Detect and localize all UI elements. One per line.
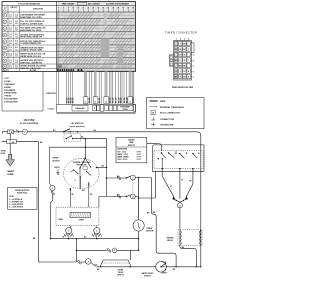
off column shade (57, 12, 60, 72)
motor enclosure box (49, 146, 106, 148)
svg-text:60: 60 (132, 8, 134, 10)
cam row 1 (3, 13, 7, 17)
right bus wire (200, 137, 202, 268)
svg-text:WIRE INSERTION SIDE: WIRE INSERTION SIDE (172, 87, 194, 89)
stator bar (70, 212, 91, 217)
cam 3-4 dashed link (132, 180, 134, 194)
svg-text:0: 0 (58, 8, 59, 10)
svg-text:2-4: 2-4 (9, 40, 12, 43)
water temp switch info box (116, 137, 147, 163)
svg-text:1-2: 1-2 (9, 21, 12, 23)
svg-text:WATER: WATER (128, 139, 135, 142)
svg-text:2-6: 2-6 (9, 43, 11, 45)
svg-text:21: 21 (85, 101, 87, 103)
svg-text:5-6: 5-6 (15, 53, 18, 55)
svg-text:9 SPECIAL/TEMP: 9 SPECIAL/TEMP (4, 100, 19, 103)
svg-text:6: 6 (193, 71, 194, 73)
svg-text:MOTOR: MOTOR (53, 160, 61, 162)
svg-text:3: 3 (193, 55, 194, 57)
chart gray segments (101, 38, 110, 57)
temp contact 3 (179, 153, 180, 154)
svg-text:8 MOTOR/TIMER: 8 MOTOR/TIMER (4, 99, 18, 101)
svg-text:(open position): (open position) (69, 125, 84, 128)
svg-text:SPEED SWITCH: SPEED SWITCH (15, 190, 30, 192)
svg-text:2 = HI SPEED OUT: 2 = HI SPEED OUT (9, 201, 23, 203)
svg-text:DRAIN TIMES, FILL CNTRL: DRAIN TIMES, FILL CNTRL (20, 16, 42, 19)
cam switch 1 (81, 261, 85, 263)
svg-text:GY VT: GY VT (137, 151, 142, 153)
svg-text:2 SOAK: 2 SOAK (4, 80, 11, 83)
timer feed bus vertical (135, 177, 151, 179)
valve feed down (179, 208, 181, 230)
svg-text:36: 36 (102, 8, 104, 10)
svg-text:(NO. 205669): (NO. 205669) (88, 4, 100, 6)
cam row 9 (3, 64, 7, 68)
wire y250 with cam 2 (76, 249, 106, 251)
svg-text:LID SWITCH: LID SWITCH (71, 123, 84, 125)
svg-text:21: 21 (106, 101, 108, 103)
svg-text:GY VT: GY VT (137, 154, 142, 156)
motor right feed junctions (106, 167, 107, 168)
svg-text:6 SPRAY RINSE: 6 SPRAY RINSE (4, 92, 18, 95)
chart dark marks (57, 69, 59, 71)
svg-text:7: 7 (193, 77, 194, 79)
svg-text:CABINET: CABINET (7, 170, 16, 173)
extra rinse switch dome (100, 260, 131, 266)
valve select wires (161, 169, 163, 176)
svg-text:START: START (79, 219, 85, 222)
cam row 4 (3, 33, 7, 37)
svg-text:SPRAY RINSE, PAUSE OFF: SPRAY RINSE, PAUSE OFF (20, 36, 42, 39)
svg-text:4 RINSE: 4 RINSE (4, 86, 11, 89)
svg-text:4-5: 4-5 (15, 46, 18, 49)
svg-text:7 PAUSE: 7 PAUSE (4, 95, 12, 98)
notes row (3, 68, 6, 71)
water level switch (156, 262, 167, 273)
svg-text:EMPTY: EMPTY (162, 272, 168, 274)
svg-text:WATER: WATER (167, 236, 174, 239)
svg-text:COLD - COLD: COLD - COLD (117, 159, 128, 161)
table data rows (2, 18, 136, 20)
svg-text:SWITCH: SWITCH (128, 145, 136, 147)
left long wire down (38, 142, 40, 262)
svg-text:BK/YE: BK/YE (55, 167, 61, 169)
svg-text:52: 52 (122, 8, 124, 10)
cam switch 3 (126, 177, 127, 178)
svg-text:1-2: 1-2 (9, 60, 12, 62)
svg-text:16: 16 (77, 8, 79, 10)
svg-text:CONNECTION: CONNECTION (160, 119, 174, 121)
svg-text:2-6: 2-6 (9, 49, 11, 51)
water valve dashed box (178, 230, 202, 246)
svg-text:4-6: 4-6 (15, 33, 18, 36)
svg-text:SOAK FILL, AGITATE SLOW: SOAK FILL, AGITATE SLOW (20, 22, 43, 25)
plug pair on y250 (107, 249, 109, 251)
cam switch 7 (50, 185, 55, 190)
svg-text:PLUG CONNECTOR: PLUG CONNECTOR (160, 113, 180, 115)
svg-text:TIMER CONNECTOR: TIMER CONNECTOR (165, 31, 197, 35)
svg-text:NOTE:: NOTE: (9, 196, 14, 198)
svg-text:PUSH-PULL: PUSH-PULL (17, 193, 29, 195)
temp box bottom terminals (162, 168, 163, 169)
water temp switch dashed box (154, 151, 203, 169)
svg-text:NOTES: NOTES (30, 70, 37, 72)
plug pair wire 3 (117, 176, 119, 178)
svg-text:8: 8 (68, 8, 69, 10)
chart column drop wires (56, 72, 58, 105)
svg-text:TIME CHART: TIME CHART (62, 3, 76, 6)
svg-text:WARM RINSE FILL VALVE: WARM RINSE FILL VALVE (20, 29, 42, 32)
svg-text:10A FUSE: 10A FUSE (24, 119, 35, 122)
svg-text:1-2: 1-2 (9, 47, 12, 49)
svg-text:5-6: 5-6 (15, 65, 18, 67)
cam row 3 (3, 27, 7, 31)
svg-text:ADVANCE, SPECIAL CAMS: ADVANCE, SPECIAL CAMS (20, 49, 43, 52)
svg-text:FULL: FULL (162, 262, 166, 264)
svg-text:HOT - COLD: HOT - COLD (117, 151, 127, 153)
svg-text:YE: YE (62, 237, 64, 239)
water temp switch outer box (152, 145, 204, 171)
svg-text:2-6: 2-6 (9, 68, 11, 70)
motor left wire down (52, 195, 54, 201)
ground arrow cabinet frame (6, 154, 15, 166)
motor winding verticals (69, 188, 71, 207)
svg-text:T: T (188, 60, 189, 62)
svg-text:CIRCUIT: CIRCUIT (10, 7, 18, 9)
svg-text:TIMER: TIMER (146, 228, 153, 230)
svg-text:2-6: 2-6 (9, 62, 11, 64)
svg-text:3 WASH/AGIT: 3 WASH/AGIT (4, 83, 16, 86)
svg-text:32: 32 (97, 8, 99, 10)
svg-text:LO SPEED WINDING CIRC: LO SPEED WINDING CIRC (20, 43, 42, 45)
svg-text:(IF SO EQUIPPED): (IF SO EQUIPPED) (20, 123, 38, 125)
motor internal contacts (73, 169, 74, 170)
temp switch left return wire (155, 171, 157, 198)
svg-text:2-3: 2-3 (9, 65, 12, 67)
svg-text:WATER VALVE COLD SOL: WATER VALVE COLD SOL (20, 55, 41, 58)
svg-text:2-6: 2-6 (9, 36, 11, 38)
protector contacts (80, 158, 85, 168)
cam row 6 (3, 46, 7, 50)
svg-text:2-3: 2-3 (9, 28, 12, 30)
motor winding dashed box (56, 207, 99, 226)
svg-text:3 = 2-SPD MOTOR: 3 = 2-SPD MOTOR (9, 204, 24, 206)
svg-text:5 SPIN/DRAIN: 5 SPIN/DRAIN (4, 89, 16, 92)
plug pair on y262 (78, 260, 80, 262)
lid switch lower wire (73, 138, 107, 140)
temp contact 1 (161, 152, 162, 153)
svg-text:5: 5 (193, 66, 194, 68)
svg-text:1 = LO SPEED IN: 1 = LO SPEED IN (9, 199, 23, 201)
valve solenoid right (199, 230, 200, 244)
svg-text:FUNCTION: FUNCTION (33, 9, 43, 11)
svg-text:T: T (180, 43, 181, 45)
svg-text:2-6: 2-6 (9, 17, 11, 19)
legend internal timer buss (150, 106, 158, 108)
svg-text:2-6: 2-6 (9, 30, 11, 32)
cam row 8 (3, 59, 7, 63)
legend connection (151, 119, 155, 121)
svg-text:1 OFF: 1 OFF (4, 78, 9, 80)
plug connector A on L1 (8, 130, 14, 134)
svg-text:GY VT: GY VT (137, 159, 142, 161)
svg-text:SWITCH: SWITCH (144, 276, 151, 278)
bottom-left wire y262 (39, 261, 40, 263)
winding terminal 5 (94, 228, 100, 234)
svg-text:4-5: 4-5 (15, 27, 18, 30)
svg-text:28: 28 (92, 8, 94, 10)
cam switch 4 (126, 196, 127, 197)
speed switch box (8, 187, 37, 209)
motor bottom bus (50, 238, 138, 240)
legend wire (150, 100, 158, 102)
valve cam circle 4 (177, 203, 182, 208)
timer motor bottom wire (138, 231, 140, 250)
connector ticks (94, 265, 96, 267)
svg-text:INTERNAL TIMER BUSS: INTERNAL TIMER BUSS (160, 106, 184, 109)
ground branch wire (9, 134, 11, 154)
bar bottom labels (83, 97, 88, 104)
svg-text:5-6: 5-6 (15, 41, 18, 43)
temp feed from top right (200, 151, 202, 153)
valve switch arrows (173, 197, 176, 200)
bottom bus y267 (97, 266, 156, 268)
plug pair wire 4 (117, 195, 119, 197)
svg-text:3-4: 3-4 (15, 13, 18, 16)
svg-text:VT: VT (183, 54, 185, 56)
wire to rinse circuit (130, 249, 138, 251)
svg-text:WATER LEVEL: WATER LEVEL (142, 272, 154, 275)
motor run contact (96, 167, 97, 168)
bottom wire right (166, 266, 201, 268)
svg-text:DRIVE: DRIVE (53, 158, 60, 160)
cam row 5 (3, 40, 7, 44)
plug pair below 7 (51, 191, 53, 193)
time chart cam hatches (58, 13, 136, 69)
svg-text:SWITCH: SWITCH (117, 275, 124, 277)
winding coil left (64, 233, 74, 236)
svg-text:START WDG, CENTRIF SW: START WDG, CENTRIF SW (20, 61, 42, 64)
svg-text:2-6: 2-6 (9, 56, 11, 58)
time chart grid (57, 12, 135, 72)
temp contact 2 (168, 152, 169, 153)
winding terminal 8 (66, 228, 72, 234)
cam row 2 (3, 20, 7, 24)
motor protector dashed circle (64, 158, 100, 188)
svg-text:56: 56 (127, 8, 129, 10)
svg-text:VT: VT (181, 180, 183, 182)
svg-text:RINSE: RINSE (118, 272, 123, 274)
legend crossover (151, 123, 155, 125)
svg-text:FRAME: FRAME (7, 173, 14, 176)
svg-text:CYCLE: CYCLE (48, 109, 55, 111)
svg-text:FUNCTION: FUNCTION (46, 93, 56, 95)
connector left tab (169, 55, 173, 66)
svg-text:2-6: 2-6 (9, 23, 11, 25)
main top wire L1 (2, 131, 4, 133)
level switch feed (150, 178, 152, 212)
branch down from bus (75, 239, 77, 262)
table header row (2, 11, 136, 13)
temp switch stub wire (147, 143, 159, 145)
connector right tab (191, 43, 194, 53)
svg-text:GY VT: GY VT (137, 157, 142, 159)
temp contact 4 (192, 153, 193, 154)
cam row 7 (3, 53, 7, 57)
svg-text:1-2: 1-2 (9, 14, 12, 16)
lid switch S1 (63, 131, 64, 132)
svg-text:3-4: 3-4 (9, 52, 12, 55)
svg-text:3-4: 3-4 (15, 59, 18, 62)
svg-text:12: 12 (72, 8, 74, 10)
svg-text:20: 20 (82, 8, 84, 10)
svg-text:21: 21 (95, 101, 97, 103)
svg-text:5-6: 5-6 (15, 21, 18, 23)
winding coil right (92, 233, 102, 236)
timer motor (133, 220, 144, 231)
fuse F1 (22, 129, 27, 134)
svg-text:REGULAR: REGULAR (76, 107, 86, 110)
svg-text:WIRE: WIRE (160, 101, 166, 103)
svg-text:21: 21 (130, 101, 132, 103)
svg-text:LEAD: LEAD (1, 152, 6, 155)
chart sub-row lines (57, 15, 136, 70)
svg-text:CYCLE INFORMATION: CYCLE INFORMATION (18, 3, 41, 6)
wire from motor to cam 4 (99, 196, 107, 198)
cam switch 2 (112, 248, 117, 253)
svg-text:6: 6 (75, 180, 76, 182)
legend plug connector (151, 111, 155, 115)
cycle information table (57, 2, 136, 72)
svg-text:1-3: 1-3 (9, 34, 12, 36)
svg-text:MOTOR: MOTOR (146, 231, 154, 233)
protector feed wire (84, 139, 86, 159)
svg-text:PRESS: PRESS (123, 109, 128, 111)
svg-text:10: 10 (4, 70, 6, 72)
svg-text:ALLOWED FOR INCREMENT: ALLOWED FOR INCREMENT (106, 3, 130, 6)
notes list box (2, 72, 43, 112)
legend box (147, 98, 205, 129)
plug connector on ground wire (2, 141, 7, 143)
valve solenoid left (180, 230, 181, 244)
table title row (2, 5, 136, 7)
svg-text:VALVE: VALVE (167, 239, 174, 242)
svg-text:CROSSOVER: CROSSOVER (160, 124, 174, 126)
